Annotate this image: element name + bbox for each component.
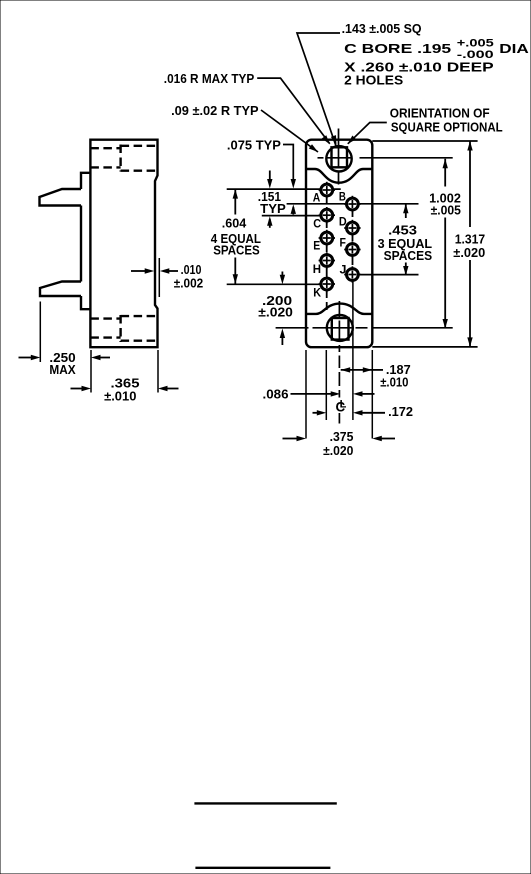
svg-text:K: K [313,285,321,299]
label ±.010 bottom [380,374,408,389]
label ±.020 right [453,245,485,260]
svg-text:J: J [340,263,347,277]
label A [313,190,321,204]
label ±.010 side [104,389,136,404]
label .187 [386,362,411,377]
bottom hole vertical centerline [338,301,340,424]
label SPACES right [384,248,433,263]
svg-text:±.020: ±.020 [258,304,293,319]
label B [339,189,346,203]
extension line pin tip [39,302,41,363]
label ±.020 bottom [323,443,353,458]
svg-text:SPACES: SPACES [213,242,260,257]
hidden square hole top (dashed) [90,148,120,167]
dimension .010 left arrow [131,268,154,273]
extension line body right lower [157,350,159,393]
contact hole C [319,207,335,223]
svg-text:±.010: ±.010 [380,374,408,389]
dimension .375 arrows [283,436,396,441]
side view insulator strip [81,173,90,309]
label ORIENTATION OF [390,106,490,121]
body top extension line [372,140,477,142]
dimension .187 [341,367,383,372]
svg-text:ORIENTATION OF: ORIENTATION OF [390,106,490,121]
contact hole D [344,220,360,236]
label ±.002 [174,276,203,291]
svg-text:A: A [313,190,321,204]
label .200 [262,293,292,308]
label SQUARE OPTIONAL [391,120,503,135]
front view body outline [306,140,372,348]
label ±.005 right [431,203,461,218]
label .604 [222,216,247,231]
label .365 [111,376,140,391]
top mounting hole circle [326,146,351,171]
svg-text:.086: .086 [263,387,289,402]
dimension .453 line [403,204,408,276]
leader .075 typ [283,145,293,181]
label .375 [330,429,354,444]
side view body outline [90,140,157,348]
side view bottom pin [40,282,81,297]
dimension .086 leader and arrows [291,391,375,396]
left column centerline lower segment [326,290,328,314]
label .172 [388,404,413,419]
svg-text:MAX: MAX [49,362,76,377]
svg-text:B: B [339,189,346,203]
right column extension below body [352,281,354,420]
hole C level extension line [262,215,321,217]
extension line front body left lower [305,350,307,439]
svg-text:.604: .604 [222,216,247,231]
body bottom extension line [372,346,477,348]
label .143 ±.005 SQ [342,21,422,36]
contact hole J [344,266,360,282]
svg-text:L: L [340,399,347,411]
svg-text:.09 ±.02 R TYP: .09 ±.02 R TYP [171,103,259,118]
dimension .365 right arrow [158,386,179,391]
hole J level extension line [359,274,419,276]
leader orientation of square [348,123,387,145]
horizontal rule 1 [194,802,336,804]
svg-text:±.002: ±.002 [174,276,203,291]
label H [313,262,321,276]
front view bottom scallop [306,304,372,314]
label -.000 [457,49,494,61]
svg-text:C BORE .195: C BORE .195 [344,41,451,56]
svg-text:±.005: ±.005 [431,203,461,218]
label 1.002 [429,191,461,206]
dimension .250 right arrow [91,355,110,360]
label SPACES left [213,242,260,257]
hole K level extension line [227,283,321,285]
leader .016 R [257,78,330,144]
centerline symbol [336,399,347,415]
dimension .365 left arrow [71,386,92,391]
contact hole K [319,276,335,292]
svg-text:.375: .375 [330,429,354,444]
svg-text:+.005: +.005 [457,38,494,50]
contact hole H [319,252,335,268]
leader .143 sq [297,33,340,146]
svg-text:±.020: ±.020 [323,443,353,458]
top hole horizontal centerline / 1.002 extension [318,157,453,159]
leader .09 R [261,110,318,152]
hole A level extension line [227,188,341,190]
label C [313,217,321,231]
extension line front body right lower [371,350,373,439]
side view top pin [40,189,82,206]
extension line body left lower [90,350,92,393]
label .016 R MAX TYP [164,71,255,86]
label .09 ±.02 R TYP [171,103,259,118]
label TYP [260,201,286,216]
left column extension below body [325,350,327,420]
dimension .151 arrows [267,171,272,228]
label .250 [49,350,75,365]
dimension .075 arrows [291,179,296,215]
svg-text:TYP: TYP [260,201,286,216]
label MAX [49,362,76,377]
label .010 [181,262,202,277]
svg-text:±.010: ±.010 [104,389,136,404]
dimension .250 left arrow [19,355,41,360]
horizontal rule 2 [195,867,330,869]
left contact column centerline [326,184,328,290]
label 2 HOLES [344,73,403,88]
top hole vertical centerline [338,129,340,185]
svg-text:.143 ±.005 SQ: .143 ±.005 SQ [342,21,422,36]
label E [313,239,320,253]
extension line for .010 flange [158,258,160,297]
svg-text:SPACES: SPACES [384,248,433,263]
hidden square hole bottom (dashed) [90,319,120,338]
right contact column centerline [352,197,354,281]
contact hole E [319,230,335,246]
hidden counterbore top (dashed) [121,145,158,172]
contact hole B [344,196,360,212]
label DIA [499,41,529,56]
label X .260 ±.010 DEEP [344,60,494,75]
svg-text:.016 R MAX TYP: .016 R MAX TYP [164,71,255,86]
svg-text:D: D [339,214,347,228]
svg-text:SQUARE OPTIONAL: SQUARE OPTIONAL [391,120,503,135]
front view top scallop [306,169,372,183]
dimension 1.002 line [443,159,448,329]
svg-text:C: C [313,217,321,231]
label .075 TYP [227,138,281,153]
bottom hole horizontal centerline / 1.002 extension [276,327,453,329]
dimension .604 line [233,189,238,284]
svg-text:.172: .172 [388,404,413,419]
svg-text:F: F [340,236,346,250]
svg-text:.075 TYP: .075 TYP [227,138,281,153]
hidden counterbore bottom (dashed) [121,315,158,342]
svg-text:±.020: ±.020 [453,245,485,260]
svg-text:2 HOLES: 2 HOLES [344,73,403,88]
label C BORE .195 [344,41,451,56]
dimension .172 arrows [313,410,386,415]
svg-text:E: E [313,239,320,253]
label 4 EQUAL [211,231,261,246]
bottom square broach [332,318,349,340]
dimension .010 right arrow [160,268,178,273]
svg-text:DIA: DIA [499,41,529,56]
label +.005 [457,38,494,50]
label ±.020 left [258,304,293,319]
label D [339,214,347,228]
contact hole A [319,182,335,198]
label .151 [258,189,281,204]
label 1.317 [455,231,485,246]
bottom mounting hole circle [327,315,353,341]
label K [313,285,321,299]
contact hole F [344,241,360,257]
hole B level extension line [287,203,419,205]
label .453 [388,222,417,237]
dimension 1.317 line [467,141,472,347]
label 3 EQUAL [378,236,433,251]
label J [340,263,347,277]
dimension .200 arrows [280,272,285,346]
label F [340,236,346,250]
svg-text:1.317: 1.317 [455,231,485,246]
svg-text:H: H [313,262,321,276]
label .086 [263,387,289,402]
top square broach [332,147,348,167]
